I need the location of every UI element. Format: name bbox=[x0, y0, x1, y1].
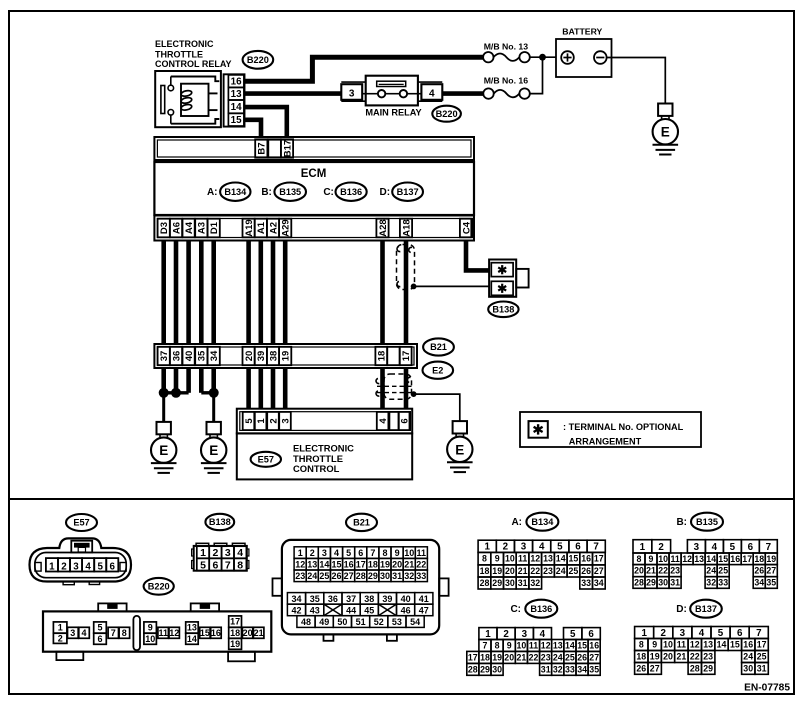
svg-text:7: 7 bbox=[593, 542, 599, 553]
svg-text:27: 27 bbox=[344, 571, 354, 581]
svg-text:E: E bbox=[159, 443, 168, 458]
svg-text:13: 13 bbox=[694, 554, 704, 564]
svg-text:8: 8 bbox=[237, 560, 243, 572]
svg-text:A3: A3 bbox=[197, 222, 208, 234]
svg-text:26: 26 bbox=[636, 664, 646, 674]
svg-text:17: 17 bbox=[401, 351, 412, 362]
svg-text:7: 7 bbox=[225, 560, 231, 572]
svg-text:25: 25 bbox=[319, 571, 329, 581]
svg-text:7: 7 bbox=[766, 542, 772, 553]
svg-text:16: 16 bbox=[344, 560, 354, 570]
svg-text:14: 14 bbox=[556, 554, 566, 564]
svg-text:13: 13 bbox=[553, 641, 563, 651]
svg-text:19: 19 bbox=[380, 560, 390, 570]
svg-text:3: 3 bbox=[694, 542, 700, 553]
svg-text:7: 7 bbox=[370, 548, 375, 558]
svg-text:6: 6 bbox=[588, 629, 594, 640]
svg-text:26: 26 bbox=[754, 566, 764, 576]
svg-text:44: 44 bbox=[346, 605, 356, 615]
svg-text:19: 19 bbox=[230, 639, 240, 649]
svg-text:A2: A2 bbox=[268, 222, 279, 234]
svg-text:13: 13 bbox=[307, 560, 317, 570]
svg-text:11: 11 bbox=[518, 554, 527, 564]
svg-text:3: 3 bbox=[521, 542, 527, 553]
svg-text:10: 10 bbox=[505, 554, 515, 564]
svg-text:6: 6 bbox=[748, 542, 754, 553]
svg-text:M/B No. 13: M/B No. 13 bbox=[484, 41, 529, 51]
svg-text:B136: B136 bbox=[340, 187, 362, 197]
svg-text:27: 27 bbox=[650, 664, 660, 674]
svg-text:14: 14 bbox=[706, 554, 716, 564]
svg-text:38: 38 bbox=[268, 351, 279, 362]
svg-text:31: 31 bbox=[518, 578, 528, 588]
svg-text:2: 2 bbox=[658, 542, 664, 553]
svg-text:35: 35 bbox=[589, 664, 599, 674]
svg-text:E: E bbox=[209, 443, 218, 458]
svg-text:30: 30 bbox=[743, 664, 753, 674]
svg-text:12: 12 bbox=[295, 560, 305, 570]
svg-text:32: 32 bbox=[530, 578, 540, 588]
svg-text:4: 4 bbox=[334, 548, 339, 558]
svg-text:1: 1 bbox=[49, 561, 55, 572]
svg-text:23: 23 bbox=[541, 653, 551, 663]
svg-text:45: 45 bbox=[364, 605, 374, 615]
svg-text:B138: B138 bbox=[492, 305, 514, 315]
svg-text:52: 52 bbox=[374, 617, 384, 627]
svg-text:9: 9 bbox=[495, 554, 500, 564]
svg-text:ELECTRONIC: ELECTRONIC bbox=[155, 39, 214, 49]
svg-text:A4: A4 bbox=[184, 221, 195, 234]
svg-text:4: 4 bbox=[85, 561, 91, 572]
svg-text:22: 22 bbox=[530, 566, 540, 576]
svg-text:16: 16 bbox=[211, 628, 221, 638]
svg-text:2: 2 bbox=[268, 418, 279, 423]
svg-text:24: 24 bbox=[743, 652, 753, 662]
svg-text:3: 3 bbox=[70, 628, 75, 638]
svg-text:2: 2 bbox=[503, 629, 509, 640]
svg-text:B135: B135 bbox=[279, 187, 301, 197]
svg-text:9: 9 bbox=[652, 640, 657, 650]
svg-text:B134: B134 bbox=[224, 187, 247, 197]
svg-text:A28: A28 bbox=[378, 219, 389, 236]
svg-text:17: 17 bbox=[742, 554, 752, 564]
svg-text:31: 31 bbox=[757, 664, 767, 674]
svg-text:49: 49 bbox=[319, 617, 329, 627]
svg-text:31: 31 bbox=[392, 571, 402, 581]
svg-text:1: 1 bbox=[641, 628, 647, 639]
svg-text:22: 22 bbox=[529, 653, 539, 663]
svg-text:47: 47 bbox=[419, 605, 429, 615]
svg-text:8: 8 bbox=[495, 641, 500, 651]
svg-text:14: 14 bbox=[717, 640, 727, 650]
svg-text:35: 35 bbox=[197, 350, 208, 361]
svg-text:48: 48 bbox=[301, 617, 311, 627]
svg-text:18: 18 bbox=[636, 652, 646, 662]
svg-text:20: 20 bbox=[634, 566, 644, 576]
svg-text:34: 34 bbox=[594, 578, 604, 588]
svg-text:B:: B: bbox=[261, 187, 272, 198]
svg-text:A1: A1 bbox=[256, 221, 267, 234]
svg-text:B220: B220 bbox=[148, 582, 170, 592]
svg-text:17: 17 bbox=[230, 617, 240, 627]
svg-text:7: 7 bbox=[756, 628, 762, 639]
svg-text:8: 8 bbox=[382, 548, 387, 558]
svg-text:16: 16 bbox=[743, 640, 753, 650]
svg-text:30: 30 bbox=[380, 571, 390, 581]
svg-text:53: 53 bbox=[392, 617, 402, 627]
svg-text:29: 29 bbox=[492, 578, 502, 588]
svg-text:18: 18 bbox=[480, 653, 490, 663]
svg-text:54: 54 bbox=[410, 617, 420, 627]
svg-text:CONTROL RELAY: CONTROL RELAY bbox=[155, 59, 232, 69]
svg-text:21: 21 bbox=[404, 560, 414, 570]
svg-text:5: 5 bbox=[718, 628, 724, 639]
svg-text:6: 6 bbox=[109, 561, 115, 572]
svg-text:4: 4 bbox=[539, 542, 545, 553]
svg-text:30: 30 bbox=[658, 578, 668, 588]
svg-text:33: 33 bbox=[718, 578, 728, 588]
svg-text:25: 25 bbox=[569, 566, 579, 576]
svg-text:B134: B134 bbox=[531, 517, 554, 527]
svg-text:21: 21 bbox=[677, 652, 687, 662]
svg-text:26: 26 bbox=[331, 571, 341, 581]
svg-text:B137: B137 bbox=[695, 604, 717, 614]
svg-text:A6: A6 bbox=[171, 222, 182, 234]
svg-text:23: 23 bbox=[543, 566, 553, 576]
svg-text:24: 24 bbox=[556, 566, 566, 576]
svg-text:11: 11 bbox=[529, 641, 538, 651]
svg-text:19: 19 bbox=[492, 653, 502, 663]
svg-text:5: 5 bbox=[97, 623, 102, 633]
svg-text:28: 28 bbox=[356, 571, 366, 581]
svg-text:E57: E57 bbox=[258, 455, 274, 465]
svg-text:5: 5 bbox=[557, 542, 563, 553]
svg-text:14: 14 bbox=[319, 560, 329, 570]
svg-text:3: 3 bbox=[522, 629, 528, 640]
svg-text:37: 37 bbox=[159, 351, 170, 362]
svg-text:1: 1 bbox=[58, 623, 63, 633]
svg-text:10: 10 bbox=[658, 554, 668, 564]
svg-text:CONTROL: CONTROL bbox=[293, 463, 340, 474]
svg-text:9: 9 bbox=[395, 548, 400, 558]
svg-text:25: 25 bbox=[757, 652, 767, 662]
svg-text:D1: D1 bbox=[209, 221, 220, 234]
svg-text:33: 33 bbox=[416, 571, 426, 581]
svg-text:17: 17 bbox=[356, 560, 366, 570]
svg-text:5: 5 bbox=[200, 560, 206, 572]
svg-text:13: 13 bbox=[703, 640, 713, 650]
svg-text:8: 8 bbox=[637, 554, 642, 564]
svg-text:7: 7 bbox=[111, 628, 116, 638]
svg-text:8: 8 bbox=[482, 554, 487, 564]
svg-text:25: 25 bbox=[565, 653, 575, 663]
svg-text:21: 21 bbox=[646, 566, 656, 576]
svg-text:18: 18 bbox=[480, 566, 490, 576]
svg-text:27: 27 bbox=[589, 653, 599, 663]
svg-text:6: 6 bbox=[737, 628, 743, 639]
svg-text:B136: B136 bbox=[530, 604, 552, 614]
svg-text:28: 28 bbox=[690, 664, 700, 674]
svg-text:4: 4 bbox=[712, 542, 718, 553]
svg-text:16: 16 bbox=[581, 554, 591, 564]
svg-text:EN-07785: EN-07785 bbox=[744, 683, 790, 694]
svg-text:21: 21 bbox=[517, 653, 527, 663]
svg-text:15: 15 bbox=[231, 115, 242, 126]
svg-text:29: 29 bbox=[646, 578, 656, 588]
svg-text:12: 12 bbox=[541, 641, 551, 651]
svg-text:46: 46 bbox=[401, 605, 411, 615]
svg-text:20: 20 bbox=[392, 560, 402, 570]
svg-text:B220: B220 bbox=[436, 109, 458, 119]
svg-text:B137: B137 bbox=[397, 187, 419, 197]
svg-text:8: 8 bbox=[639, 640, 644, 650]
svg-text:31: 31 bbox=[541, 664, 551, 674]
svg-text:B:: B: bbox=[676, 517, 687, 528]
svg-text:14: 14 bbox=[187, 634, 197, 644]
svg-text:31: 31 bbox=[670, 578, 680, 588]
svg-text:E: E bbox=[661, 125, 670, 140]
svg-text:3: 3 bbox=[280, 418, 291, 423]
svg-text:C:: C: bbox=[510, 604, 521, 615]
svg-text:1: 1 bbox=[200, 547, 206, 559]
svg-text:37: 37 bbox=[346, 594, 356, 604]
svg-text:38: 38 bbox=[364, 594, 374, 604]
svg-text:B21: B21 bbox=[430, 342, 447, 352]
svg-text:29: 29 bbox=[480, 664, 490, 674]
svg-text:35: 35 bbox=[766, 578, 776, 588]
svg-text:32: 32 bbox=[706, 578, 716, 588]
svg-text:21: 21 bbox=[518, 566, 528, 576]
svg-text:30: 30 bbox=[492, 664, 502, 674]
svg-text:9: 9 bbox=[507, 641, 512, 651]
svg-text:23: 23 bbox=[703, 652, 713, 662]
svg-text:A29: A29 bbox=[281, 219, 292, 236]
svg-text:32: 32 bbox=[404, 571, 414, 581]
svg-text:20: 20 bbox=[663, 652, 673, 662]
svg-text:34: 34 bbox=[754, 578, 764, 588]
svg-text:34: 34 bbox=[291, 594, 301, 604]
svg-text:20: 20 bbox=[243, 628, 253, 638]
svg-text:14: 14 bbox=[565, 641, 575, 651]
svg-text:14: 14 bbox=[231, 102, 242, 113]
svg-text:27: 27 bbox=[766, 566, 776, 576]
svg-text:4: 4 bbox=[429, 88, 435, 99]
svg-text:13: 13 bbox=[231, 89, 242, 100]
svg-text:4: 4 bbox=[699, 628, 705, 639]
svg-text:22: 22 bbox=[658, 566, 668, 576]
svg-text:20: 20 bbox=[244, 351, 255, 362]
svg-text:C4: C4 bbox=[461, 221, 472, 234]
svg-text:18: 18 bbox=[377, 351, 388, 362]
svg-text:B7: B7 bbox=[257, 142, 268, 154]
svg-text:15: 15 bbox=[730, 640, 740, 650]
svg-text:43: 43 bbox=[310, 605, 320, 615]
svg-text:D:: D: bbox=[676, 604, 687, 615]
svg-text:25: 25 bbox=[718, 566, 728, 576]
svg-text:ECM: ECM bbox=[301, 168, 327, 180]
svg-text:2: 2 bbox=[61, 561, 67, 572]
svg-text:29: 29 bbox=[368, 571, 378, 581]
svg-text:29: 29 bbox=[703, 664, 713, 674]
svg-text:11: 11 bbox=[158, 628, 168, 638]
svg-text:2: 2 bbox=[58, 633, 63, 643]
svg-text:32: 32 bbox=[553, 664, 563, 674]
svg-text:18: 18 bbox=[230, 628, 240, 638]
svg-text:A:: A: bbox=[511, 517, 522, 528]
svg-text:11: 11 bbox=[417, 548, 427, 558]
svg-text:3: 3 bbox=[322, 548, 327, 558]
svg-text:28: 28 bbox=[468, 664, 478, 674]
svg-text:15: 15 bbox=[718, 554, 728, 564]
svg-text:15: 15 bbox=[569, 554, 579, 564]
svg-text:2: 2 bbox=[212, 547, 218, 559]
svg-text:5: 5 bbox=[97, 561, 103, 572]
svg-text:4: 4 bbox=[378, 418, 389, 424]
svg-text:A18: A18 bbox=[401, 219, 412, 236]
svg-text:23: 23 bbox=[295, 571, 305, 581]
svg-text:17: 17 bbox=[757, 640, 767, 650]
svg-text:51: 51 bbox=[356, 617, 366, 627]
svg-text:5: 5 bbox=[570, 629, 576, 640]
svg-text:24: 24 bbox=[307, 571, 317, 581]
svg-text:40: 40 bbox=[184, 351, 195, 362]
svg-text:12: 12 bbox=[169, 628, 179, 638]
svg-text:26: 26 bbox=[577, 653, 587, 663]
svg-text:C:: C: bbox=[323, 187, 334, 198]
svg-text:1: 1 bbox=[485, 629, 491, 640]
svg-text:18: 18 bbox=[368, 560, 378, 570]
svg-text:10: 10 bbox=[517, 641, 527, 651]
svg-text:11: 11 bbox=[670, 554, 679, 564]
svg-text:28: 28 bbox=[480, 578, 490, 588]
svg-text:THROTTLE: THROTTLE bbox=[155, 49, 203, 59]
svg-text:16: 16 bbox=[589, 641, 599, 651]
svg-text:36: 36 bbox=[328, 594, 338, 604]
svg-text:2: 2 bbox=[660, 628, 666, 639]
svg-text:24: 24 bbox=[706, 566, 716, 576]
svg-text:17: 17 bbox=[594, 554, 604, 564]
svg-text:1: 1 bbox=[256, 418, 267, 424]
svg-text:17: 17 bbox=[468, 653, 478, 663]
svg-text:1: 1 bbox=[298, 548, 303, 558]
svg-text:3: 3 bbox=[73, 561, 79, 572]
svg-text:26: 26 bbox=[581, 566, 591, 576]
svg-text:10: 10 bbox=[404, 548, 414, 558]
svg-text:11: 11 bbox=[677, 640, 686, 650]
svg-text:B21: B21 bbox=[353, 518, 370, 528]
svg-text:10: 10 bbox=[663, 640, 673, 650]
svg-text:5: 5 bbox=[730, 542, 736, 553]
svg-text:39: 39 bbox=[382, 594, 392, 604]
svg-text:30: 30 bbox=[505, 578, 515, 588]
svg-text:7: 7 bbox=[483, 641, 488, 651]
svg-text:20: 20 bbox=[504, 653, 514, 663]
svg-text:13: 13 bbox=[187, 623, 197, 633]
svg-text:3: 3 bbox=[225, 547, 231, 559]
svg-text:35: 35 bbox=[310, 594, 320, 604]
svg-text:D:: D: bbox=[380, 187, 391, 198]
svg-text:A19: A19 bbox=[244, 219, 255, 236]
svg-text:19: 19 bbox=[492, 566, 502, 576]
svg-text:39: 39 bbox=[256, 351, 267, 362]
svg-text:9: 9 bbox=[148, 623, 153, 633]
svg-text:1: 1 bbox=[640, 542, 646, 553]
svg-text:B17: B17 bbox=[282, 140, 293, 157]
svg-text:10: 10 bbox=[145, 634, 155, 644]
svg-text:5: 5 bbox=[244, 418, 255, 424]
svg-text:16: 16 bbox=[231, 77, 242, 88]
svg-text:B135: B135 bbox=[696, 517, 718, 527]
svg-text:22: 22 bbox=[690, 652, 700, 662]
svg-text:MAIN RELAY: MAIN RELAY bbox=[365, 107, 421, 117]
svg-text:19: 19 bbox=[281, 351, 292, 362]
svg-text:36: 36 bbox=[171, 351, 182, 362]
svg-text:B138: B138 bbox=[209, 517, 231, 527]
svg-text:9: 9 bbox=[649, 554, 654, 564]
svg-text:20: 20 bbox=[505, 566, 515, 576]
svg-text:6: 6 bbox=[212, 560, 218, 572]
svg-text:M/B No. 16: M/B No. 16 bbox=[484, 75, 529, 85]
svg-text:4: 4 bbox=[237, 547, 243, 559]
svg-text:: TERMINAL No. OPTIONAL: : TERMINAL No. OPTIONAL bbox=[563, 422, 684, 432]
svg-text:42: 42 bbox=[291, 605, 301, 615]
svg-text:2: 2 bbox=[503, 542, 509, 553]
svg-text:33: 33 bbox=[565, 664, 575, 674]
svg-text:D3: D3 bbox=[159, 222, 170, 234]
svg-text:50: 50 bbox=[337, 617, 347, 627]
svg-text:12: 12 bbox=[690, 640, 700, 650]
svg-text:6: 6 bbox=[358, 548, 363, 558]
svg-text:34: 34 bbox=[209, 350, 220, 361]
svg-text:E57: E57 bbox=[73, 518, 89, 528]
svg-text:B220: B220 bbox=[247, 55, 269, 65]
svg-text:ARRANGEMENT: ARRANGEMENT bbox=[569, 436, 642, 446]
svg-text:BATTERY: BATTERY bbox=[562, 27, 602, 37]
svg-text:1: 1 bbox=[484, 542, 490, 553]
svg-text:40: 40 bbox=[401, 594, 411, 604]
svg-text:E: E bbox=[455, 442, 464, 457]
svg-text:15: 15 bbox=[200, 628, 210, 638]
svg-text:3: 3 bbox=[680, 628, 686, 639]
svg-text:13: 13 bbox=[543, 554, 553, 564]
svg-text:6: 6 bbox=[400, 418, 411, 423]
svg-text:5: 5 bbox=[346, 548, 351, 558]
svg-text:12: 12 bbox=[682, 554, 692, 564]
svg-text:21: 21 bbox=[254, 628, 264, 638]
svg-text:15: 15 bbox=[331, 560, 341, 570]
svg-text:E2: E2 bbox=[432, 365, 443, 375]
svg-text:24: 24 bbox=[553, 653, 563, 663]
svg-text:6: 6 bbox=[575, 542, 581, 553]
svg-text:34: 34 bbox=[577, 664, 587, 674]
svg-text:22: 22 bbox=[416, 560, 426, 570]
svg-text:4: 4 bbox=[540, 629, 546, 640]
svg-text:27: 27 bbox=[594, 566, 604, 576]
svg-text:6: 6 bbox=[97, 634, 102, 644]
svg-text:33: 33 bbox=[581, 578, 591, 588]
svg-text:23: 23 bbox=[670, 566, 680, 576]
svg-text:19: 19 bbox=[766, 554, 776, 564]
svg-text:8: 8 bbox=[122, 628, 127, 638]
svg-text:15: 15 bbox=[577, 641, 587, 651]
svg-text:19: 19 bbox=[650, 652, 660, 662]
svg-text:28: 28 bbox=[634, 578, 644, 588]
svg-text:12: 12 bbox=[530, 554, 540, 564]
svg-text:4: 4 bbox=[81, 628, 86, 638]
svg-text:3: 3 bbox=[349, 88, 355, 99]
svg-text:18: 18 bbox=[754, 554, 764, 564]
svg-text:16: 16 bbox=[730, 554, 740, 564]
